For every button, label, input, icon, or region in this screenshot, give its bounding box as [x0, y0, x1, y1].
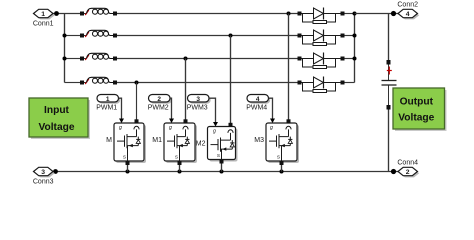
diode D2	[298, 30, 345, 46]
wire src M3	[281, 165, 283, 172]
svg-text:g: g	[270, 125, 273, 131]
wire drain M	[136, 83, 138, 120]
diode D4	[298, 77, 345, 93]
wire gate M2	[209, 98, 216, 122]
connection port Conn1	[33, 9, 55, 27]
annotation Output Voltage	[393, 88, 447, 131]
inport PWM3	[187, 95, 211, 112]
wire left bus	[64, 14, 66, 83]
capacitor C1	[382, 14, 397, 172]
node src M3	[280, 170, 284, 174]
svg-text:S: S	[277, 155, 280, 161]
arrow gate M3	[270, 119, 275, 124]
inductor L1	[80, 8, 117, 15]
wire diode D4 out	[345, 82, 355, 84]
svg-text:M: M	[106, 137, 112, 144]
svg-text:PWM4: PWM4	[246, 105, 267, 112]
inductor L4	[80, 77, 117, 84]
svg-text:2: 2	[406, 169, 410, 176]
diode D1	[298, 8, 345, 24]
inport PWM1	[96, 95, 120, 112]
wire row3 mid	[117, 58, 298, 60]
wire drain M1	[185, 59, 187, 120]
svg-text:4: 4	[256, 96, 260, 103]
svg-text:M1: M1	[152, 137, 162, 144]
inductor L2	[80, 30, 117, 37]
wire src M	[127, 165, 129, 172]
wire gate M1	[170, 98, 172, 119]
svg-text:g: g	[213, 128, 216, 134]
svg-text:3: 3	[41, 169, 45, 176]
svg-text:PWM2: PWM2	[148, 105, 169, 112]
arrow gate M	[119, 119, 124, 124]
wire src M1	[179, 165, 181, 172]
svg-text:1: 1	[41, 11, 45, 18]
node bus2-row1	[353, 12, 357, 16]
arrow gate M1	[169, 119, 174, 124]
connection port Conn3	[33, 167, 55, 185]
mosfet M	[106, 119, 146, 165]
wire drain M2	[230, 36, 232, 124]
wire bottom rail	[53, 171, 398, 173]
wire drain M3	[288, 14, 290, 120]
diode D3	[298, 53, 345, 69]
svg-text:S: S	[123, 155, 126, 161]
mosfet M3	[254, 119, 299, 165]
inport PWM2	[148, 95, 172, 112]
wire gate M	[119, 98, 122, 119]
wire right bus	[354, 14, 356, 83]
inport PWM4	[246, 95, 270, 112]
node bus2-row2	[353, 34, 357, 38]
svg-text:PWM3: PWM3	[187, 105, 208, 112]
wire row2 mid	[117, 35, 298, 37]
wire row2 left	[65, 35, 81, 37]
node src M2	[220, 170, 224, 174]
svg-text:M3: M3	[254, 137, 264, 144]
mosfet M1	[152, 119, 197, 165]
svg-text:Conn4: Conn4	[397, 160, 418, 167]
svg-text:g: g	[119, 125, 122, 131]
wire top out	[355, 13, 399, 15]
node bus-row2	[63, 34, 67, 38]
svg-text:Input: Input	[44, 105, 69, 116]
svg-text:Conn3: Conn3	[33, 178, 54, 185]
svg-text:PWM1: PWM1	[96, 105, 117, 112]
annotation Input Voltage	[29, 98, 90, 139]
node src M1	[178, 170, 182, 174]
svg-text:Conn1: Conn1	[33, 20, 54, 27]
node src M	[126, 170, 130, 174]
node row3 tap	[184, 57, 188, 61]
node row2 tap	[229, 34, 233, 38]
node Conn1	[54, 11, 59, 16]
wire diode D3 out	[345, 58, 355, 60]
svg-text:4: 4	[406, 11, 410, 18]
svg-text:Voltage: Voltage	[38, 122, 74, 133]
node row1 tap	[287, 12, 291, 16]
svg-text:M2: M2	[196, 141, 206, 148]
node bus-row3	[63, 57, 67, 61]
arrow gate M2	[213, 122, 218, 127]
connection port Conn4	[397, 160, 419, 178]
svg-text:g: g	[169, 125, 172, 131]
svg-text:2: 2	[157, 96, 161, 103]
connection port Conn2	[397, 2, 419, 20]
svg-text:1: 1	[106, 96, 110, 103]
wire row4 left	[65, 82, 81, 84]
inductor L3	[80, 53, 117, 60]
svg-text:S: S	[217, 153, 220, 159]
node Conn2	[391, 11, 396, 16]
node bus2-row3	[353, 57, 357, 61]
svg-text:S: S	[175, 155, 178, 161]
svg-text:Voltage: Voltage	[398, 113, 434, 124]
wire row3 left	[65, 58, 81, 60]
wire diode D1 out	[345, 13, 355, 15]
wire row4 mid	[117, 82, 298, 84]
mosfet M2	[196, 123, 238, 164]
svg-text:Output: Output	[400, 96, 434, 107]
wire diode D2 out	[345, 35, 355, 37]
wire gate M3	[269, 98, 273, 119]
node row4 tap	[135, 81, 139, 85]
node Conn4	[391, 169, 396, 174]
svg-text:Conn2: Conn2	[397, 2, 418, 9]
wire src M2	[221, 164, 223, 172]
wire row1 left	[53, 13, 80, 15]
svg-text:3: 3	[196, 96, 200, 103]
wire row1 mid	[117, 13, 298, 15]
node Conn3	[53, 169, 58, 174]
